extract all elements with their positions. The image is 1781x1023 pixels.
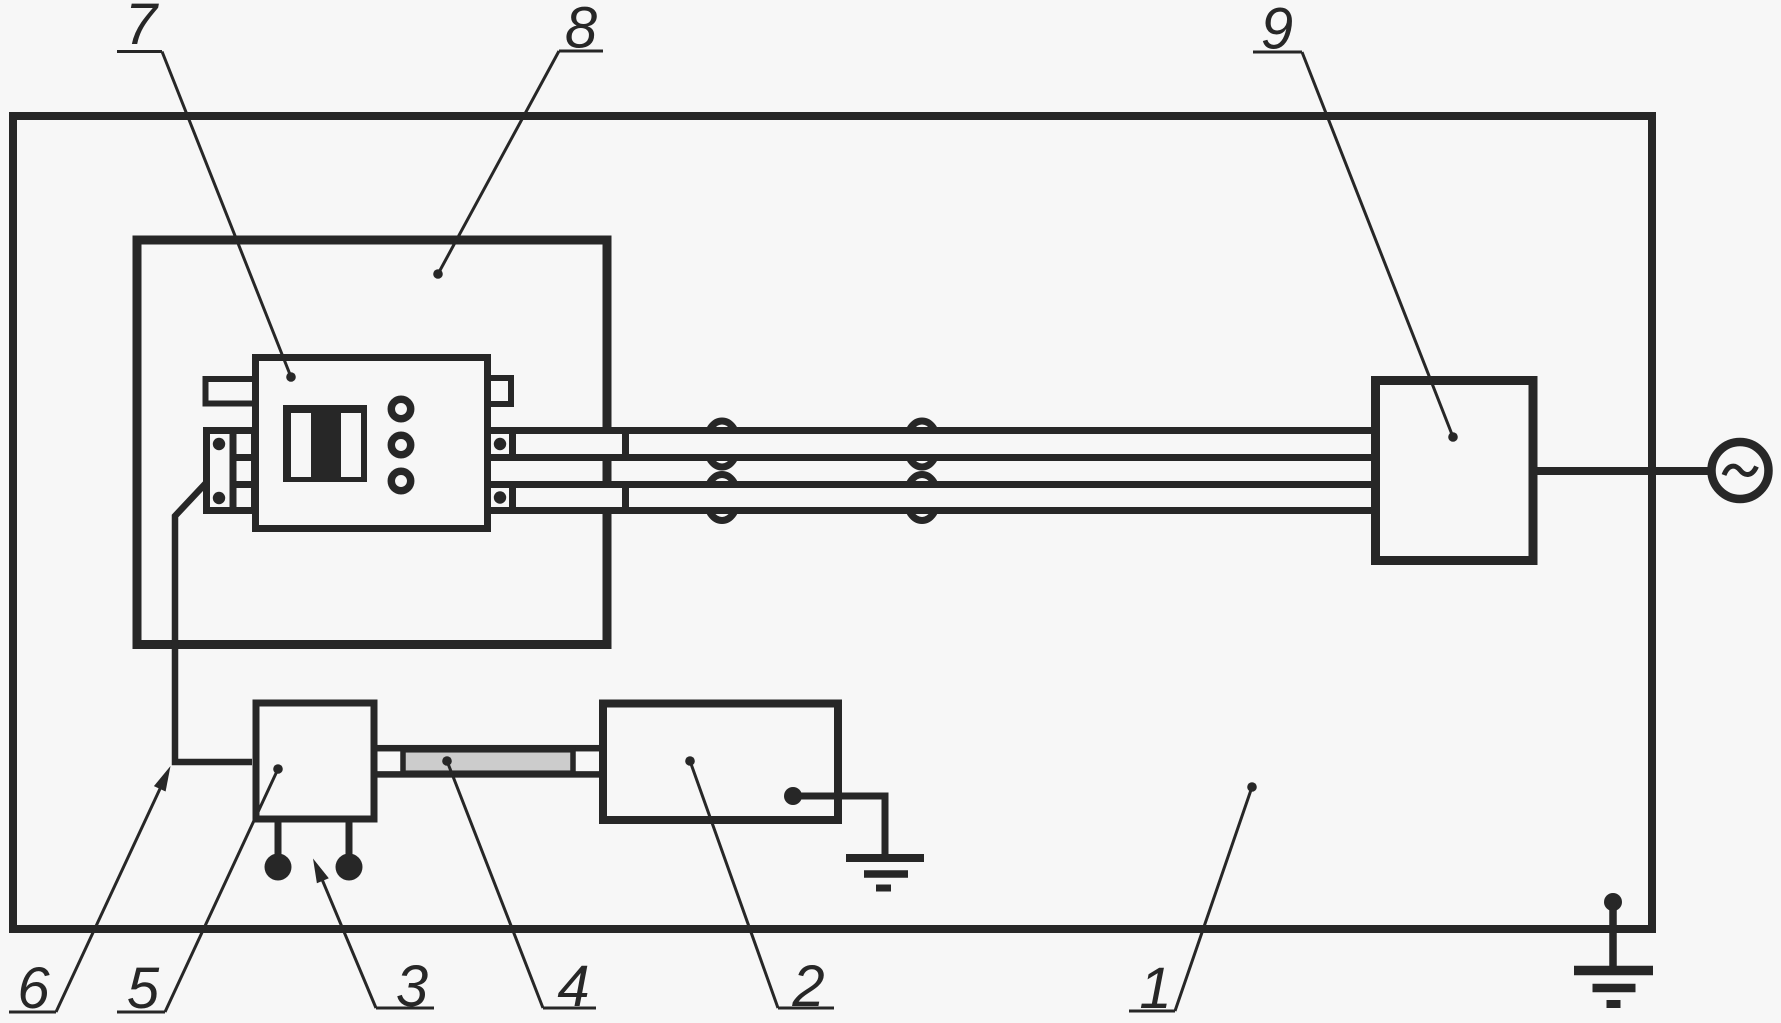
bushing cap on bus bar 3 [622, 481, 629, 514]
terminal stem left under box 5 [275, 819, 282, 855]
box 8 (inner chamber) [137, 240, 607, 645]
leader line 9 [1302, 52, 1453, 437]
device 7 indicator ring bottom [391, 471, 410, 490]
AC source circle [1712, 442, 1769, 499]
terminal square on bus bar 1 at device [509, 427, 516, 461]
ground symbol under box 2 [846, 854, 924, 862]
left connector divider [230, 427, 237, 514]
rod between box 5 and box 2 [374, 748, 606, 774]
device 7 top-left mounting tab [206, 379, 256, 404]
terminal bolt dot bus bar 3 [494, 491, 506, 503]
left connector bolt dot top [213, 438, 225, 450]
left connector window divider top [233, 454, 258, 461]
left connector window divider bottom [233, 481, 258, 488]
bus bar 3 white body [491, 487, 1372, 508]
frame ground stem [1609, 902, 1617, 966]
bus bar edge line 1 [488, 427, 1375, 434]
contact ball 3 right [336, 854, 363, 881]
leader line 3 with arrow [316, 865, 376, 1008]
leader line 8 [438, 51, 559, 274]
leader line 6 with arrow [56, 778, 165, 1012]
box 5 (drive unit) [256, 703, 374, 819]
leader line 5 [165, 769, 278, 1012]
AC source tilde [1724, 466, 1757, 475]
device 7 indicator ring top [391, 399, 410, 418]
insulating sleeve 4 [403, 750, 573, 773]
box 2 (control unit) [603, 704, 838, 821]
leader line 1 [1175, 787, 1252, 1011]
toroid sensor ring column A bottom (on bus bar 3) [706, 475, 738, 521]
device 7 indicator ring middle [391, 435, 410, 454]
wire 6 from connector plate to box 5 [175, 483, 252, 762]
contact ball 3 left [265, 854, 292, 881]
device 7 (recloser body) [256, 358, 488, 529]
box 9 (transformer cabinet) [1376, 381, 1534, 561]
bus bar 1 white body [491, 434, 1372, 455]
left connector bolt dot bottom [213, 492, 225, 504]
terminal bolt dot bus bar 1 [494, 438, 506, 450]
frame 1 (outer enclosure) [13, 116, 1652, 929]
frame ground dot [1604, 893, 1622, 911]
leader line 4 [447, 761, 543, 1008]
terminal stem right under box 5 [346, 819, 353, 855]
bus bar edge line 2 [488, 454, 1375, 461]
ground wire from box 2 [784, 787, 802, 805]
wire from box 9 to AC source [1533, 467, 1712, 475]
toroid sensor ring column B top (on bus bar 1) [906, 421, 938, 467]
leader line 7 [162, 52, 291, 378]
bus bar edge line 3 [488, 481, 1375, 488]
frame ground symbol [1574, 966, 1653, 976]
toroid sensor ring column A top (on bus bar 1) [706, 421, 738, 467]
left connector assembly outer plate [207, 431, 255, 511]
device 7 display window [283, 405, 367, 482]
device 7 display left white segment [291, 413, 311, 477]
terminal square on bus bar 3 at device [509, 481, 516, 514]
device 7 top-right mounting tab [488, 378, 511, 404]
bushing cap on bus bar 1 [622, 427, 629, 461]
device 7 display right white segment [341, 413, 361, 477]
svg-text:7: 7 [125, 0, 160, 57]
bus bar edge line 4 [488, 507, 1375, 514]
toroid sensor ring column B bottom (on bus bar 3) [906, 475, 938, 521]
leader line 2 [690, 761, 778, 1008]
